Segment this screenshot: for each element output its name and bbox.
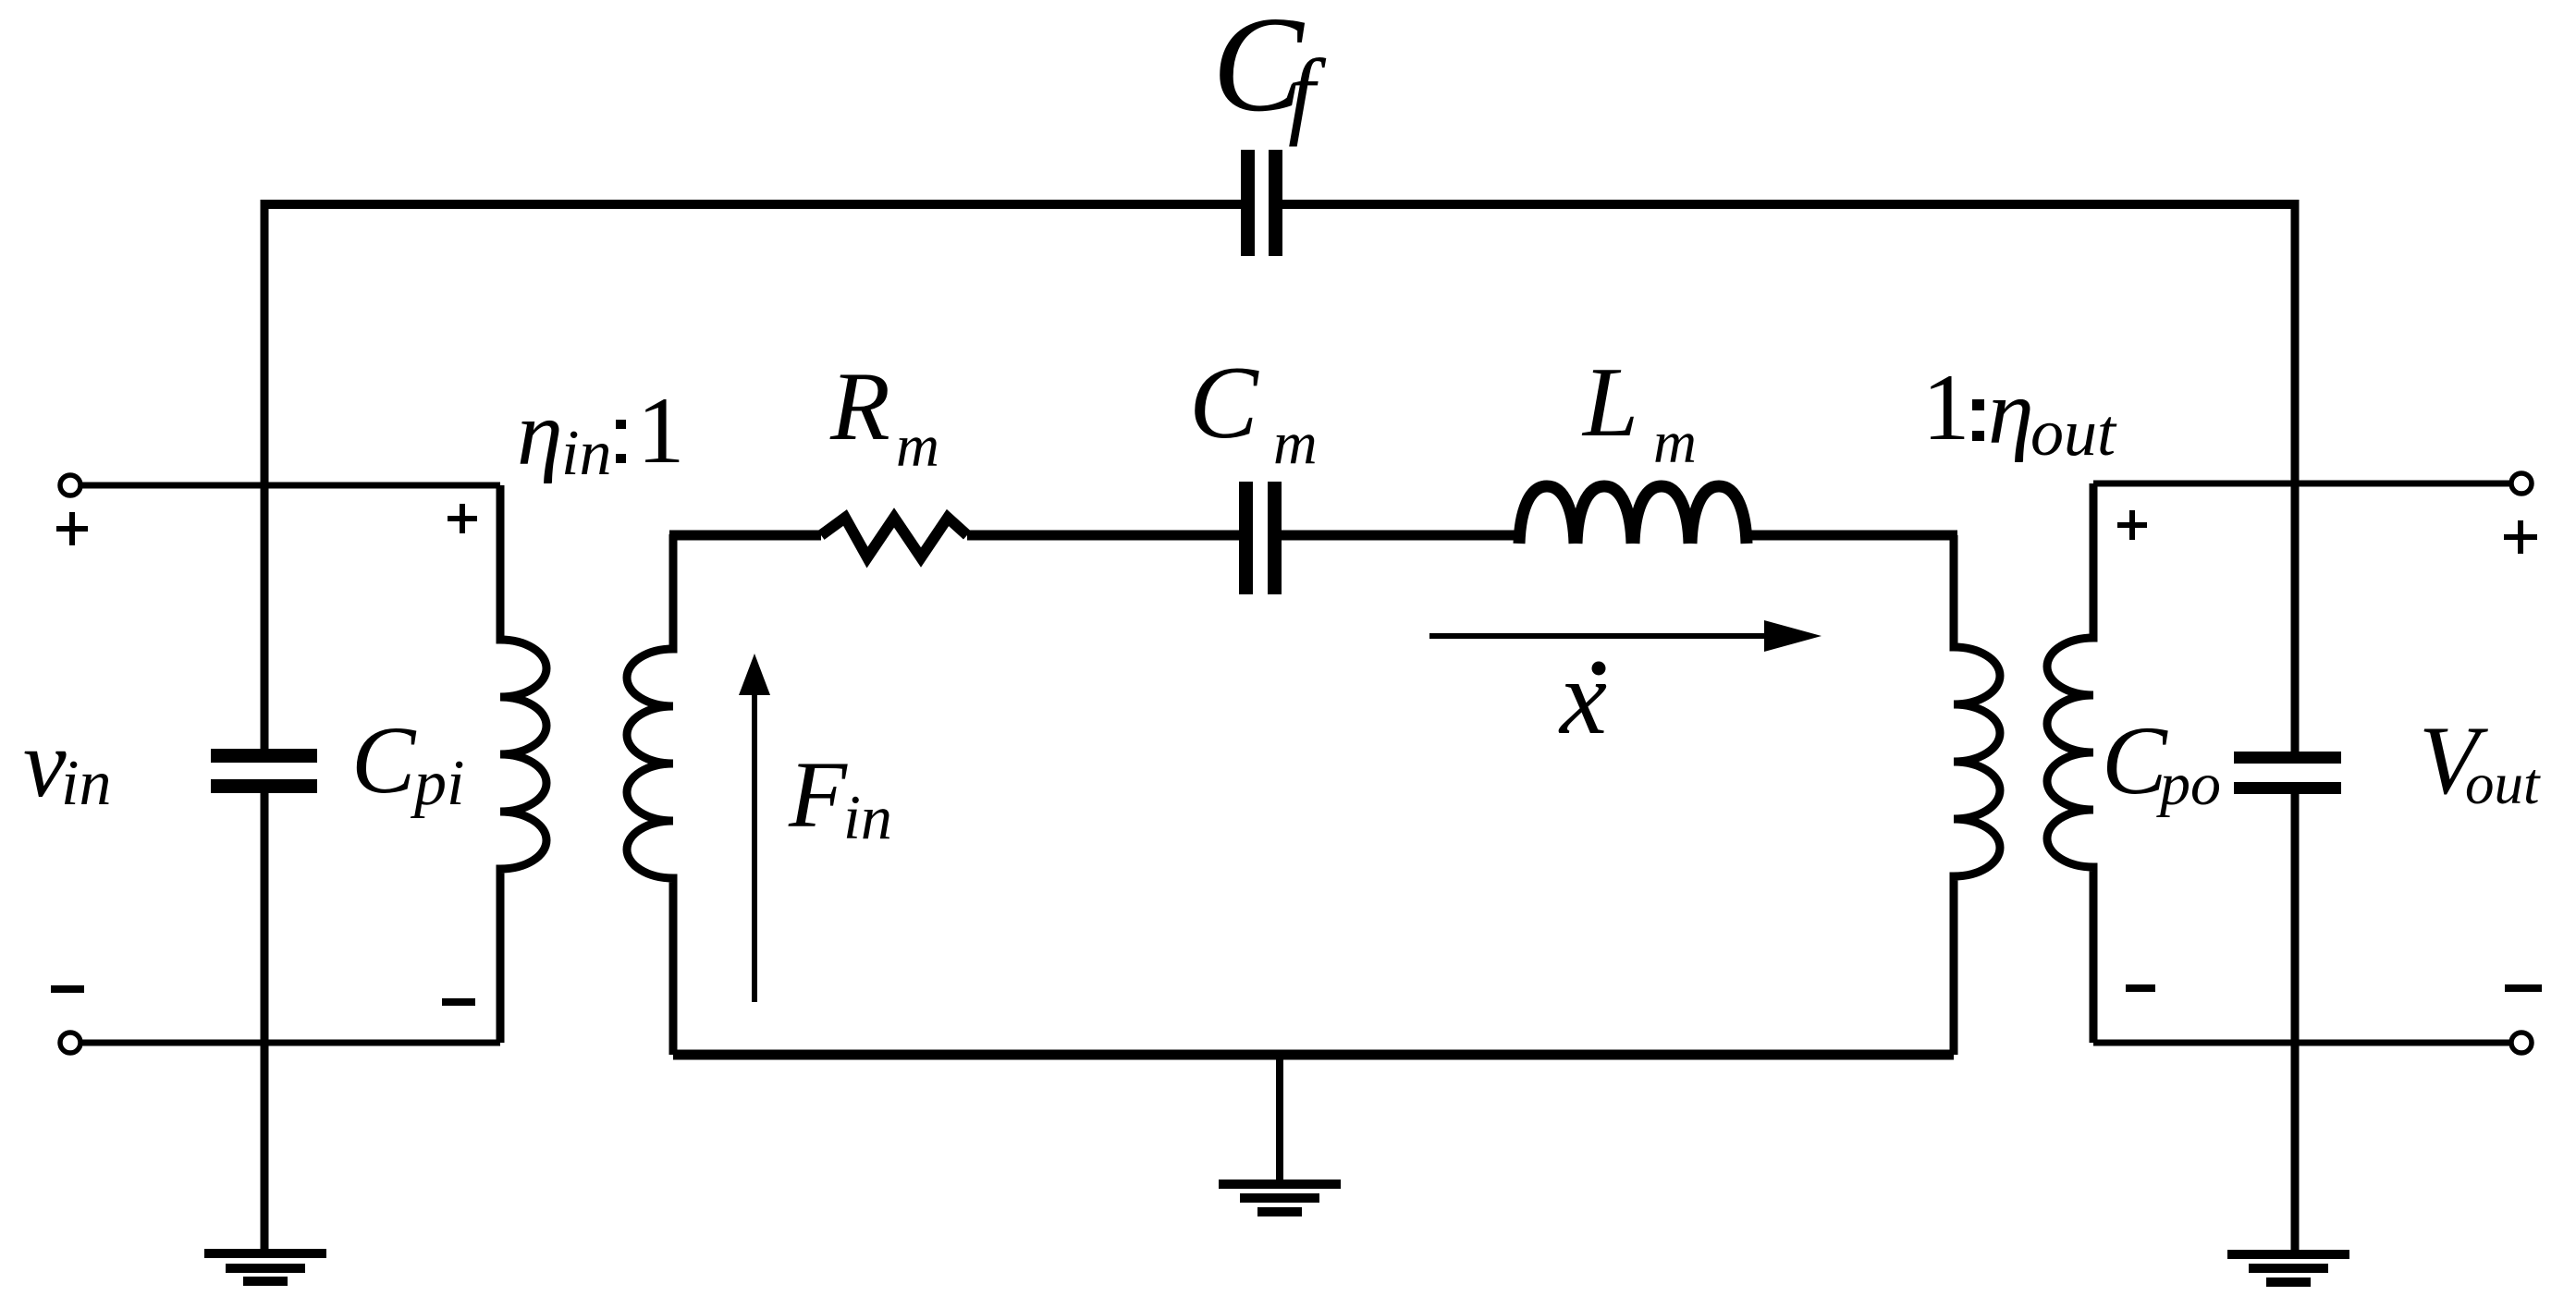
svg-text:v: v (23, 709, 67, 817)
svg-text:m: m (896, 413, 939, 480)
svg-text:in: in (61, 748, 111, 819)
svg-text:out: out (2030, 396, 2117, 470)
svg-text:out: out (2465, 752, 2541, 816)
svg-text:po: po (2156, 751, 2221, 818)
svg-text:x: x (1558, 639, 1607, 756)
svg-text:pi: pi (410, 748, 464, 819)
svg-text:R: R (829, 352, 890, 460)
svg-text:1: 1 (637, 378, 685, 483)
svg-text:m: m (1653, 410, 1697, 476)
svg-text:in: in (561, 418, 611, 489)
svg-text:F: F (788, 742, 848, 848)
svg-text:1: 1 (1922, 355, 1970, 460)
svg-text:L: L (1581, 348, 1638, 458)
svg-text:C: C (351, 707, 417, 813)
svg-text:η: η (1988, 361, 2034, 463)
svg-text:m: m (1273, 410, 1318, 477)
svg-text:C: C (1189, 346, 1259, 460)
svg-text:η: η (517, 382, 563, 484)
svg-text:in: in (843, 782, 892, 852)
svg-text:C: C (2102, 706, 2168, 814)
